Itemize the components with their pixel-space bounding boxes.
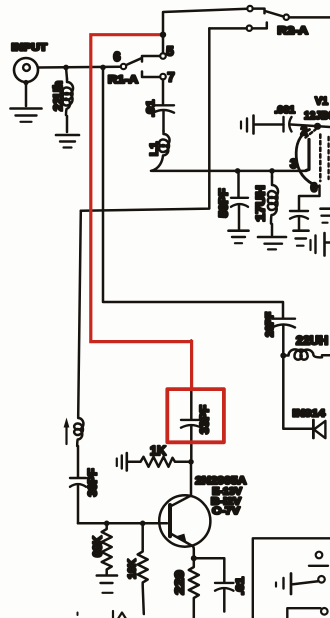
- svg-text:68K: 68K: [93, 535, 105, 557]
- wire to 39PF: [77, 446, 80, 477]
- inductor 22uh: [63, 67, 73, 132]
- tube plate bar: [306, 140, 309, 171]
- capacitor 50PF: [231, 171, 248, 230]
- switch R2-A top contact circle: [247, 6, 252, 11]
- svg-text:.01: .01: [145, 100, 157, 117]
- svg-text:C-7V: C-7V: [212, 506, 240, 517]
- pin 7 circle: [160, 74, 166, 80]
- ground below 22uh: [56, 135, 79, 148]
- svg-text:R2-A: R2-A: [278, 25, 309, 37]
- tube grid dashed line: [319, 135, 322, 182]
- capacitor .01 bottom: [215, 583, 234, 612]
- node 10K: [140, 521, 146, 527]
- relay contact circle 2: [318, 576, 325, 583]
- diode IN914: [313, 420, 325, 438]
- capacitor at pin 6: [290, 211, 308, 230]
- capacitor .01 top: [153, 105, 174, 131]
- rotated ground in relay box: [276, 574, 318, 595]
- switch R2-A arm: [266, 11, 284, 16]
- relay box: [253, 538, 330, 618]
- node red line end: [160, 32, 166, 38]
- node emitter: [191, 555, 197, 561]
- contact bracket R2-A top: [253, 9, 265, 14]
- svg-text:22UH: 22UH: [296, 336, 328, 348]
- svg-text:6: 6: [114, 50, 121, 64]
- ground at right edge upper: [321, 209, 330, 223]
- ground below 50PF: [229, 231, 249, 244]
- bottom edge partial marks: [78, 611, 126, 618]
- wire node to diode: [283, 356, 312, 429]
- capacitor .001: [255, 117, 330, 132]
- svg-text:12JB6: 12JB6: [304, 110, 330, 122]
- pin 5 circle: [160, 53, 166, 59]
- wire pin7 down to capacitor: [162, 79, 165, 103]
- svg-text:5: 5: [166, 44, 173, 59]
- node 68K: [104, 521, 110, 527]
- ground left of .001: [241, 116, 254, 134]
- resistor 1K: [127, 457, 189, 467]
- red highlight box around 33PF: [167, 389, 224, 442]
- base rail wire: [78, 522, 167, 525]
- svg-text:39PF: 39PF: [88, 469, 100, 497]
- ground at right edge lower rotated: [311, 233, 330, 256]
- svg-text:INPUT: INPUT: [12, 43, 48, 54]
- svg-text:220: 220: [175, 571, 187, 595]
- ground below 68K: [97, 576, 117, 593]
- tube V1 envelope: [296, 130, 318, 187]
- R2-A bottom contact circle: [247, 26, 252, 31]
- relay contact bar: [309, 565, 328, 567]
- transistor Q1 2N2905A: [159, 462, 210, 558]
- node input line to long vertical: [100, 65, 106, 71]
- svg-text:22Uh: 22Uh: [53, 81, 65, 111]
- node below 20PF: [280, 353, 286, 359]
- svg-text:20PF: 20PF: [264, 312, 276, 337]
- svg-text:3: 3: [290, 157, 297, 171]
- node 17UH: [269, 168, 275, 174]
- wire L1 to tube pin 3: [152, 170, 306, 173]
- wire input to switch R1-A pole: [38, 66, 121, 69]
- svg-text:R1-A: R1-A: [108, 74, 138, 86]
- svg-text:50PF: 50PF: [219, 189, 231, 218]
- ground below 17UH: [258, 237, 286, 249]
- input jack J1: [14, 58, 38, 106]
- node 50PF: [235, 168, 241, 174]
- wire pin5 up to R2-A top contact: [163, 9, 247, 54]
- svg-text:6: 6: [311, 183, 317, 195]
- red highlight path: [91, 35, 192, 388]
- wire emitter to .01: [194, 558, 225, 581]
- svg-text:17UH: 17UH: [256, 186, 268, 222]
- inductor 22UH: [286, 349, 330, 359]
- dashed lead pin 2 to grid: [306, 130, 316, 138]
- contact bracket R2-A bottom: [252, 23, 267, 29]
- tube grid dashed line 2: [327, 137, 329, 179]
- svg-text:33PF: 33PF: [200, 405, 212, 434]
- node 1K / collector: [188, 459, 194, 465]
- resistor 68K: [102, 523, 112, 574]
- relay contact circle 1: [316, 552, 323, 559]
- variable inductor: [64, 416, 84, 446]
- svg-text:V1: V1: [315, 96, 328, 108]
- svg-text:2N2905A: 2N2905A: [195, 475, 246, 487]
- wire pin 6 down to cathode cap: [299, 186, 320, 211]
- svg-text:7: 7: [167, 70, 174, 85]
- resistor 220: [189, 558, 199, 618]
- svg-text:10K: 10K: [127, 559, 139, 579]
- ground below input jack: [11, 109, 42, 122]
- wire 33PF branch: [190, 341, 193, 419]
- svg-text:IN914: IN914: [293, 408, 326, 420]
- node grid pin 2: [314, 123, 321, 130]
- capacitor 33PF: [181, 420, 202, 459]
- inductor 17UH: [268, 171, 278, 235]
- capacitor 39PF: [70, 478, 86, 523]
- R2-A arm circle: [284, 15, 289, 20]
- node at inductor 22uh: [63, 65, 69, 71]
- R2-A bottom contact line: [209, 27, 246, 30]
- switch R1-A arm: [126, 58, 141, 65]
- wire R2-A arm to right edge: [289, 16, 330, 19]
- svg-text:1K: 1K: [150, 444, 166, 458]
- wire long run from input node down and across to 20pF: [103, 67, 283, 317]
- relay bottom circle: [321, 608, 328, 615]
- relay bottom bracket: [287, 608, 320, 618]
- wire R2-A down left side to lower left: [81, 28, 210, 210]
- contact bracket pin 7: [142, 72, 160, 78]
- capacitor 20PF: [272, 319, 295, 355]
- inductor L1: [151, 131, 170, 171]
- svg-text:.01: .01: [235, 577, 247, 595]
- wire left vertical to variable inductor: [78, 211, 81, 416]
- svg-text:L1: L1: [149, 142, 161, 156]
- switch R1-A pole circle pin 6: [121, 64, 126, 69]
- svg-text:.001: .001: [275, 105, 296, 116]
- ground left of 1K: [117, 453, 127, 471]
- contact bracket pin 5: [142, 56, 160, 62]
- resistor 10K: [138, 523, 148, 614]
- ground below pin6 cap: [294, 231, 309, 246]
